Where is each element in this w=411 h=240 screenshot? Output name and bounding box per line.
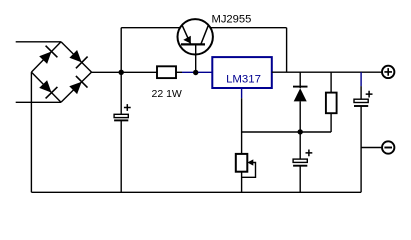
bridge diode D3 (left-bottom edge) bbox=[31, 72, 61, 102]
wire bridge + output to R1 bbox=[92, 71, 158, 73]
wire C2 to ground rail bbox=[299, 165, 301, 192]
wire R1 to node B bbox=[176, 71, 182, 73]
wire node A vertical (top rail to C1) bbox=[120, 28, 122, 115]
wire ground tap to - terminal bbox=[361, 147, 382, 149]
wire negative rail bottom horizontal bbox=[31, 191, 361, 193]
wire negative rail left vertical bbox=[30, 72, 32, 192]
wire AC input 2 (bottom) bbox=[16, 101, 61, 103]
wire AC input 1 (top) bbox=[16, 41, 61, 43]
junction node B (base/R1/LM317-IN) bbox=[193, 70, 198, 75]
bridge diode D4 (bottom-right edge) bbox=[61, 72, 92, 102]
wire LM317 OUT to + terminal bbox=[272, 71, 382, 73]
resistor R1 22 ohm bbox=[157, 66, 176, 78]
wire OUT to C3 (blue stub) bbox=[360, 72, 362, 86]
transistor Q1 MJ2955 (PNP) bbox=[178, 19, 213, 54]
wire ADJ horizontal to R2/D5 bbox=[242, 131, 332, 133]
op-amp/regulator U1 LM317 bbox=[212, 57, 271, 88]
wire ADJ vertical to pot bbox=[241, 98, 243, 154]
resistor R2 (OUT to ADJ) bbox=[326, 72, 337, 132]
junction node A bbox=[119, 70, 124, 75]
bridge diode D2 (top-right edge) bbox=[61, 42, 92, 72]
output terminal - bbox=[382, 141, 394, 153]
wire top rail left (node A to Q1 emitter) bbox=[121, 27, 180, 29]
potentiometer RV1 bbox=[236, 154, 256, 177]
wire pot bottom to ground rail bbox=[241, 172, 243, 193]
wire blue stub to C3 top bbox=[360, 86, 362, 99]
wire C1 to ground rail bbox=[120, 120, 122, 192]
wire top rail right (Q1 collector to output) bbox=[210, 27, 286, 29]
capacitor C1 (filter) bbox=[114, 104, 131, 120]
capacitor C2 (ADJ bypass) bbox=[293, 150, 312, 166]
wire node B to LM317 IN pin (blue stub) bbox=[182, 71, 212, 73]
output terminal + bbox=[382, 66, 394, 78]
wire Q1 base lead bbox=[195, 46, 197, 73]
junction node ADJ/D5/C2 bbox=[298, 129, 303, 134]
diode D5 (ADJ to OUT) bbox=[293, 72, 308, 159]
svg-text:LM317: LM317 bbox=[226, 73, 261, 85]
bridge diode D1 (left-top edge) bbox=[31, 42, 61, 72]
svg-text:MJ2955: MJ2955 bbox=[212, 13, 252, 25]
wire collector drop bbox=[286, 28, 288, 72]
svg-text:22 1W: 22 1W bbox=[152, 88, 182, 100]
wire C3 to ground rail bbox=[360, 106, 362, 192]
wire LM317 ADJ pin stub (blue) bbox=[241, 88, 243, 98]
capacitor C3 (output) bbox=[354, 91, 373, 106]
